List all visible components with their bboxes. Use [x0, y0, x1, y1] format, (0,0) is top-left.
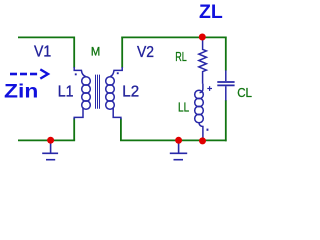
wire top-left (V1 top) [18, 36, 75, 38]
inductor L1 (primary winding) [74, 67, 90, 119]
wire left leg bottom [73, 118, 75, 140]
svg-text:RL: RL [175, 49, 187, 64]
polarity dot L1 [75, 73, 77, 75]
polarity tick LL [207, 129, 209, 131]
ground (left) [42, 141, 58, 160]
wire CL column lower green [225, 100, 227, 141]
svg-text:V1: V1 [34, 44, 51, 61]
svg-text:Zin: Zin [4, 82, 38, 103]
svg-text:M: M [91, 45, 100, 59]
Zin arrow dashes [10, 73, 37, 76]
svg-text:L1: L1 [58, 84, 74, 101]
svg-text:ZL: ZL [199, 2, 223, 23]
junction dot LL bottom [199, 137, 206, 144]
Zin arrow head [40, 69, 48, 78]
transformer core M [96, 75, 100, 109]
capacitor CL [217, 70, 234, 100]
svg-text:L2: L2 [122, 84, 139, 101]
junction dot right ground [175, 137, 182, 144]
svg-text:LL: LL [178, 99, 189, 114]
inductor L2 (secondary winding) [106, 67, 123, 119]
ground (right) [170, 141, 187, 160]
inductor LL [195, 84, 204, 140]
resistor RL [199, 39, 207, 84]
junction dot ZL node [199, 34, 206, 41]
junction dot left ground [47, 137, 54, 144]
wire bottom-right [120, 139, 227, 141]
wire CL column upper green [225, 37, 227, 71]
wire bottom-left [18, 139, 75, 141]
wire top-right (V2 to ZL node to CL corner) [121, 36, 226, 38]
polarity dot L2 [117, 72, 119, 74]
wire left leg top [73, 37, 75, 68]
wire right leg bottom [120, 118, 122, 140]
wire right leg top [121, 37, 123, 68]
svg-text:V2: V2 [137, 44, 154, 61]
plus marker LL [207, 86, 212, 91]
svg-text:CL: CL [237, 85, 252, 100]
